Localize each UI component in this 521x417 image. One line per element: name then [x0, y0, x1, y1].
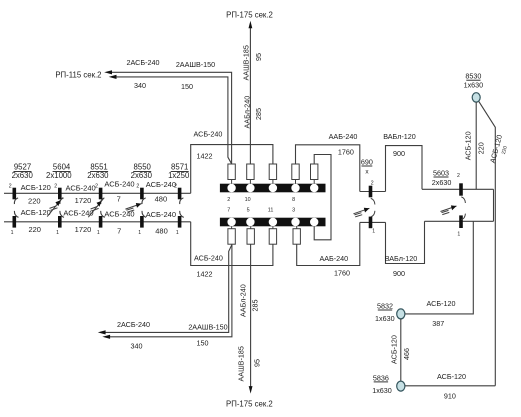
svg-text:2: 2 — [136, 183, 139, 189]
svg-text:1422: 1422 — [197, 151, 213, 160]
svg-text:1: 1 — [138, 230, 141, 236]
value label АСБ-240 1422 (bottom) — [194, 253, 223, 278]
busbar section 2 (bottom, with 5 connection points) — [220, 218, 326, 227]
svg-text:2х1000: 2х1000 — [46, 171, 72, 180]
switch arrow (to node 8551) — [88, 198, 104, 217]
svg-text:910: 910 — [444, 392, 456, 401]
svg-text:7: 7 — [117, 195, 121, 204]
svg-text:ААШВ-185: ААШВ-185 — [236, 346, 245, 381]
value label АСБ-120 220 (vertical) — [464, 131, 486, 160]
switch cell (bottom row) #4 — [293, 226, 300, 244]
value label ААБ-240 1760 (top) — [329, 132, 358, 157]
svg-text:480: 480 — [155, 195, 168, 204]
value label АСБ-120 466 — [389, 335, 410, 364]
svg-text:АСБ-240: АСБ-240 — [146, 180, 176, 189]
svg-text:1: 1 — [97, 230, 100, 236]
value label АСБ-240 1720 (segment 5604-8551 top) — [66, 183, 96, 205]
value label АСБ-240 480 (segment 8550-8571 bottom) — [146, 210, 176, 235]
wire АСБ-240 1422 (bottom link chain to switchgear) — [191, 222, 273, 266]
svg-text:7: 7 — [117, 227, 121, 236]
svg-text:АСБ-120: АСБ-120 — [389, 335, 398, 364]
node ТП 5832 1х630 (transformer circle) — [375, 302, 405, 323]
wire: bus-tie bypass around busbars (cell 5) — [314, 155, 331, 240]
wire: left chain bottom trunk — [4, 221, 191, 223]
svg-text:ААБл-240: ААБл-240 — [242, 96, 251, 129]
svg-text:1: 1 — [56, 230, 59, 236]
node 690 х (sectioning point, ticks and contacts) — [360, 157, 386, 234]
svg-text:АСБ-240: АСБ-240 — [104, 209, 134, 218]
svg-text:5836: 5836 — [373, 373, 389, 382]
value label 2ААШВ-150 150 — [176, 60, 215, 91]
svg-text:1760: 1760 — [338, 148, 354, 157]
svg-text:150: 150 — [197, 338, 209, 347]
wire ВАБл-120 900 (bottom, node 690 to node 5603) — [386, 221, 425, 263]
svg-text:1х630: 1х630 — [464, 80, 484, 89]
svg-text:1720: 1720 — [75, 225, 92, 234]
busbar section 1 (top, with 5 connection points) — [220, 184, 326, 193]
svg-text:АСБ-120: АСБ-120 — [427, 299, 456, 308]
wire: double line 2АСБ-240 / 2ААШВ-150 (bottom-left) — [98, 245, 232, 339]
svg-text:АСБ-240: АСБ-240 — [146, 210, 176, 219]
svg-text:480: 480 — [155, 227, 168, 236]
value label ААШВ-185 95 (top riser) — [241, 45, 263, 80]
svg-text:95: 95 — [254, 53, 263, 61]
node ТП 9527 2х630 (switch ticks, contacts and label) — [9, 163, 34, 236]
wire ААБ-240 1760 (top, switchgear to node 690) — [296, 145, 360, 192]
value label АСБ-120 220 (segment 9527-5604 bottom) — [21, 208, 51, 234]
svg-text:1760: 1760 — [334, 268, 350, 277]
svg-text:2: 2 — [54, 183, 57, 189]
svg-text:2х630: 2х630 — [432, 178, 452, 187]
net label РП-115 сек.2 — [55, 70, 101, 79]
switch cell (top row) #5 — [311, 164, 318, 184]
wire: double line 2АСБ-240 / 2ААШВ-150 to РП-115 сек.2 (top-left) — [104, 70, 231, 164]
wire АСБ-120 387 (5832 to 5603) — [405, 221, 473, 314]
svg-text:150: 150 — [181, 82, 193, 91]
svg-text:2х630: 2х630 — [131, 171, 153, 180]
svg-text:1: 1 — [11, 230, 14, 236]
wire ААБ-240 1760 (bottom, switchgear to node 690) — [297, 222, 360, 265]
switch arrow (to node 8550) — [125, 203, 141, 212]
svg-text:2: 2 — [227, 197, 230, 203]
svg-text:1х250: 1х250 — [168, 171, 190, 180]
svg-text:ВАБл-120: ВАБл-120 — [383, 132, 416, 141]
svg-text:АСБ-240: АСБ-240 — [104, 180, 134, 189]
svg-text:900: 900 — [393, 149, 405, 158]
svg-text:387: 387 — [432, 319, 444, 328]
svg-text:АСБ-240: АСБ-240 — [194, 130, 223, 139]
svg-text:2ААШВ-150: 2ААШВ-150 — [176, 60, 215, 69]
value label ААБл-240 285 (top riser) — [242, 96, 263, 129]
svg-text:220: 220 — [28, 196, 41, 205]
svg-text:10: 10 — [245, 197, 251, 203]
value label АСБ-240 7 (segment 8551-8550 bottom) — [104, 209, 134, 235]
svg-text:РП-175 сек.2: РП-175 сек.2 — [226, 400, 273, 409]
svg-text:8: 8 — [292, 197, 295, 203]
svg-text:АСБ-120: АСБ-120 — [464, 131, 473, 160]
svg-text:2: 2 — [371, 180, 374, 186]
svg-text:340: 340 — [131, 341, 143, 350]
svg-text:1: 1 — [457, 231, 460, 237]
net label РП-175 сек.2 (bottom) — [226, 400, 273, 409]
switch cell (top row) #3 — [269, 164, 276, 184]
svg-text:2АСБ-240: 2АСБ-240 — [117, 320, 150, 329]
node ТП 5836 1х630 (transformer circle) — [372, 373, 405, 395]
node ТП 8530 1х630 (transformer circle) — [464, 72, 484, 102]
net label РП-175 сек.2 (top) — [226, 11, 273, 20]
svg-text:220: 220 — [477, 142, 486, 154]
svg-text:1: 1 — [176, 230, 179, 236]
svg-text:АСБ-120: АСБ-120 — [21, 183, 51, 192]
svg-text:ААБ-240: ААБ-240 — [319, 254, 348, 263]
wire: riser to РП-175 сек.2 (bottom), cables ААБл-240 and ААШВ-185 — [249, 244, 253, 393]
wire АСБ-120 466 (5832 to 5836) — [400, 319, 402, 381]
switch arrow (at node 5603) — [441, 205, 457, 214]
node ТП 8550 2х630 (switch ticks, contacts and label) — [131, 163, 153, 236]
value label 2АСБ-240 340 — [127, 58, 160, 90]
switch arrow (to node 5604) — [47, 198, 63, 217]
switch cell (bottom row) #2 — [247, 226, 254, 244]
node ТП 5603 2х630 (ticks, contacts, bypass link) — [422, 168, 494, 237]
svg-text:ААШВ-185: ААШВ-185 — [241, 45, 250, 80]
svg-text:285: 285 — [251, 300, 260, 312]
switch cell (bottom row) #3 — [269, 226, 276, 244]
svg-text:1х630: 1х630 — [372, 386, 392, 395]
svg-text:220: 220 — [28, 225, 41, 234]
wire АСБ-120 220 (8530 down to 5603) — [475, 102, 477, 189]
node ТП 5604 2х1000 (switch ticks, contacts and label) — [46, 163, 72, 236]
svg-text:АСБ-240: АСБ-240 — [66, 183, 96, 192]
value label АСБ-120 220 (diagonal) — [488, 134, 509, 164]
svg-text:11: 11 — [268, 208, 274, 214]
node ТП 8551 2х630 (switch ticks, contacts and label) — [87, 163, 109, 236]
value label ВАБл-120 900 (bottom) — [385, 254, 418, 278]
svg-text:1422: 1422 — [197, 269, 213, 278]
switch cell (bottom row) #1 — [228, 226, 235, 244]
wire: left chain top trunk — [4, 192, 191, 194]
svg-text:ААБ-240: ААБ-240 — [329, 132, 358, 141]
svg-text:3: 3 — [292, 208, 295, 214]
switch cell (top row) #2 — [247, 164, 254, 184]
svg-text:1х630: 1х630 — [375, 314, 395, 323]
svg-text:АСБ-120: АСБ-120 — [21, 208, 51, 217]
switch arrow (at node 690) — [353, 208, 369, 217]
value label АСБ-240 1422 (top) — [194, 130, 223, 161]
svg-text:2: 2 — [9, 183, 12, 189]
svg-text:285: 285 — [254, 108, 263, 120]
svg-text:РП-175 сек.2: РП-175 сек.2 — [226, 11, 273, 20]
value label ААБл-240 285 (bottom riser) — [239, 284, 260, 317]
svg-text:690: 690 — [361, 157, 373, 166]
svg-text:5832: 5832 — [377, 302, 393, 311]
svg-text:РП-115 сек.2: РП-115 сек.2 — [55, 70, 101, 79]
svg-text:1720: 1720 — [75, 196, 92, 205]
wire ВАБл-120 900 (top, node 690 to node 5603) — [386, 146, 423, 192]
wire АСБ-120 220 (8530 diagonal to south riser) — [479, 102, 495, 386]
wire АСБ-240 1422 (top link chain to switchgear) — [191, 145, 273, 194]
svg-text:5: 5 — [247, 208, 250, 214]
svg-text:ААБл-240: ААБл-240 — [239, 284, 248, 317]
value label 2АСБ-240 340 (bottom) — [117, 320, 150, 350]
svg-text:2АСБ-240: 2АСБ-240 — [127, 58, 160, 67]
svg-text:2ААШВ-150: 2ААШВ-150 — [188, 323, 227, 332]
svg-text:2х630: 2х630 — [87, 171, 109, 180]
svg-text:2х630: 2х630 — [12, 171, 34, 180]
svg-text:ВАБл-120: ВАБл-120 — [385, 254, 418, 263]
svg-text:1: 1 — [372, 229, 375, 235]
svg-text:АСБ-120: АСБ-120 — [437, 372, 466, 381]
switch cell (top row) #4 — [292, 164, 299, 184]
svg-text:466: 466 — [402, 348, 411, 360]
svg-text:340: 340 — [134, 81, 146, 90]
value label АСБ-240 1720 (segment 5604-8551 bottom) — [63, 208, 93, 233]
svg-text:5603: 5603 — [433, 168, 449, 177]
value label АСБ-240 480 (segment 8550-8571 top) — [146, 180, 176, 204]
value label АСБ-120 387 — [427, 299, 456, 328]
value label 2ААШВ-150 150 (bottom) — [188, 323, 227, 348]
value label АСБ-240 7 (segment 8551-8550 top) — [104, 180, 134, 204]
switch cell (top row) #1 — [228, 164, 235, 184]
svg-text:2: 2 — [457, 173, 460, 179]
svg-text:АСБ-240: АСБ-240 — [194, 253, 223, 262]
value label ААБ-240 1760 (bottom) — [319, 254, 350, 277]
value label ААШВ-185 95 (bottom riser) — [236, 346, 261, 381]
pin numbers of cells: 2 10 8 (top row) — [227, 197, 295, 203]
wire: riser to РП-175 сек.2 (top), cables ААШВ-185 and ААБл-240 — [249, 21, 253, 164]
node ТП 8571 1х250 (switch ticks, contacts and label) — [168, 163, 190, 236]
value label ВАБл-120 900 (top) — [383, 132, 416, 158]
svg-text:7: 7 — [227, 208, 230, 214]
value label АСБ-120 220 (segment 9527-5604 top) — [21, 183, 51, 205]
pin numbers of cells: 7 5 11 3 (bottom row) — [227, 208, 295, 214]
wire АСБ-120 910 (5836 east riser) — [405, 385, 495, 387]
svg-text:95: 95 — [253, 359, 262, 367]
svg-text:900: 900 — [393, 269, 405, 278]
value label АСБ-120 910 — [437, 372, 466, 401]
